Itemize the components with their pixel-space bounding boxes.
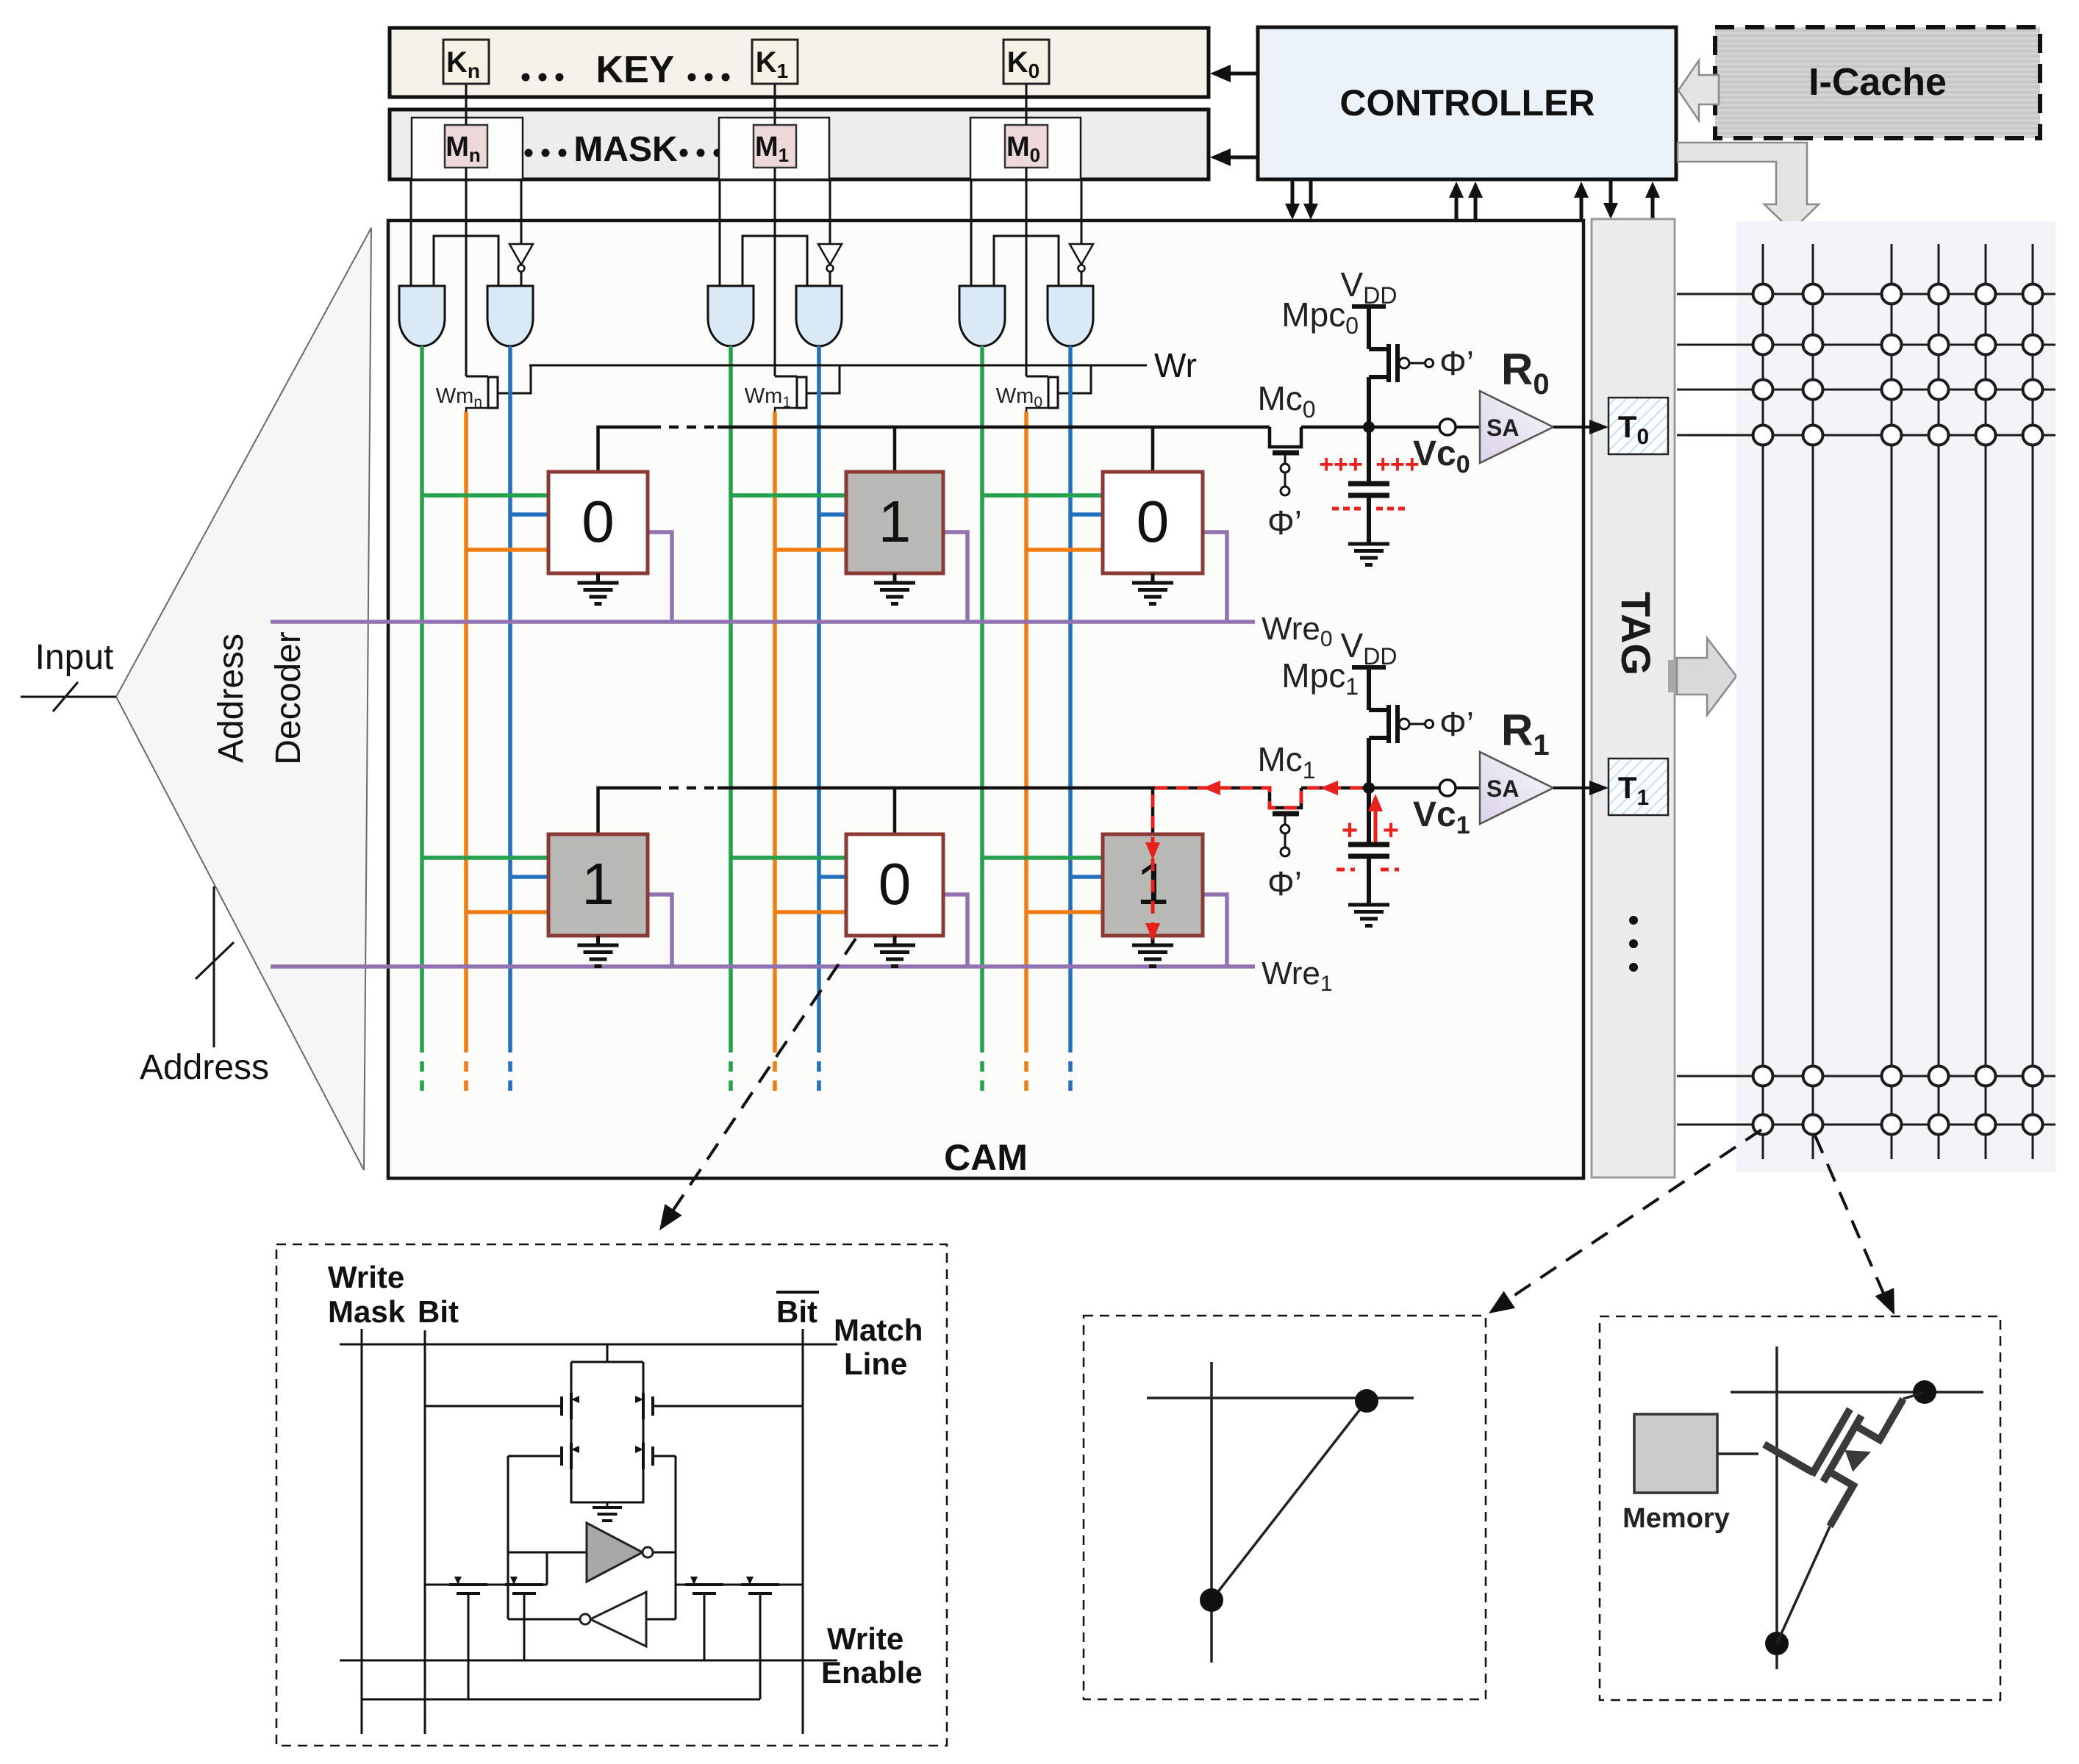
wire key K1 vertical [774, 84, 776, 125]
mask sub-cell box Mn [412, 118, 523, 179]
svg-text:SA: SA [1486, 775, 1519, 802]
key bit Kn [443, 40, 489, 84]
transistor Mpc0 precharge PMOS [1367, 306, 1371, 349]
lower gates wires [508, 1455, 562, 1458]
arrow SA to T0 [1553, 426, 1594, 429]
wire purple stub r0c2 [1203, 532, 1227, 622]
svg-text:Address: Address [212, 634, 251, 763]
wire blue stub r1c0 [510, 875, 548, 879]
gate wire to Bit-bar [653, 1405, 803, 1408]
arrow controller to KEY [1229, 72, 1258, 76]
thin leads of rotated transistor [1903, 1393, 1923, 1399]
node dot bottom [1765, 1632, 1789, 1655]
svg-text:CAM: CAM [944, 1137, 1028, 1178]
capacitor C1 [1367, 788, 1371, 845]
pass wire bottom right (detail) [676, 1584, 803, 1586]
memory array row line 2 [1677, 389, 2055, 391]
svg-text:Memory: Memory [1622, 1503, 1730, 1534]
svg-text:+: + [1383, 815, 1399, 846]
memory gate lead [1717, 1452, 1758, 1455]
svg-text:0: 0 [1137, 489, 1170, 554]
wire orange stub r1c1 [775, 910, 846, 914]
arrow controller down into TAG [1609, 180, 1613, 210]
svg-text:+: + [1342, 815, 1358, 846]
write mask vertical (detail) [361, 1329, 363, 1734]
sense amplifier SA row 1 [1456, 786, 1480, 789]
inverter (storage) [646, 1618, 676, 1621]
wire purple stub r1c2 [1203, 894, 1227, 967]
wire orange stub r0c1 [775, 548, 846, 552]
match FET lower-right [643, 1419, 645, 1443]
svg-text:SA: SA [1486, 415, 1519, 441]
crossbar vertical line [1210, 1362, 1213, 1663]
wire green stub r1c0 [422, 856, 548, 860]
arrow CAM up into controller at x=1981 [1455, 192, 1459, 220]
dots in TAG strip [1629, 916, 1638, 925]
wire blue stub r1c2 [1070, 875, 1103, 879]
svg-text:Φ’: Φ’ [1267, 503, 1302, 542]
wire match line right segment row 1 [1301, 786, 1439, 790]
CAM cell r1c0 value 1 [548, 834, 648, 936]
I-Cache block [1715, 27, 2040, 138]
memory array row line 3 [1677, 434, 2055, 437]
gate wire to Bit [425, 1405, 562, 1408]
buffer (storage) [508, 1552, 587, 1554]
dashed callout arrow array to middle box [1505, 1130, 1761, 1302]
wire key Kn vertical [465, 84, 468, 125]
wire cell top stub r1c2 [1151, 788, 1155, 834]
mask line orange 1 [773, 412, 777, 1042]
pass FET 1 [449, 1583, 487, 1586]
arrow controller to MASK [1229, 156, 1258, 159]
wire green stub r1c2 [982, 856, 1103, 860]
node junction Vc0 [1363, 421, 1375, 433]
wire key K0 vertical [1026, 84, 1028, 125]
CAM cell detail dashed box [276, 1244, 947, 1746]
pass wire bottom left (detail) [425, 1584, 547, 1586]
match line (detail) [340, 1344, 837, 1346]
memory element square [1634, 1414, 1717, 1493]
svg-text:1: 1 [879, 489, 912, 554]
match line ML1 [598, 788, 652, 834]
tag bit box T1 [1609, 759, 1668, 815]
transistor Mc0 on match line [1270, 427, 1301, 447]
crossbar node dot B [1200, 1588, 1223, 1612]
ground below cell r0c0 [596, 573, 600, 582]
svg-text:Write: Write [827, 1621, 903, 1656]
block arrow I-Cache to controller [1678, 60, 1719, 121]
wire blue stub r0c1 [819, 512, 846, 517]
svg-text:Input: Input [35, 638, 114, 677]
wire cell top stub r1c1 [893, 788, 897, 834]
wire mask right Mn [520, 179, 523, 244]
Wre1 purple write-enable row line [271, 964, 1255, 969]
controller block [1258, 27, 1676, 179]
mask sub-cell box M0 [970, 118, 1081, 179]
crossbar detail dashed box [1084, 1316, 1486, 1699]
wire green stub r0c0 [422, 493, 548, 498]
ground below cell r1c2 [1151, 936, 1155, 944]
VDD rail row 0 [1352, 304, 1386, 309]
pass FET 2 [505, 1583, 543, 1586]
red discharge path on ML1 [1153, 788, 1362, 928]
key bit K1 [752, 40, 798, 84]
AND gate Bn [487, 286, 533, 346]
memory array row line 0 [1677, 293, 2055, 295]
svg-text:Wr: Wr [1154, 346, 1197, 384]
memory array column line 2 [1891, 244, 1893, 1159]
stack bottom join [571, 1469, 643, 1502]
CAM cell r0c2 value 0 [1103, 472, 1203, 573]
inverter on mask line n [509, 244, 533, 265]
arrow TAG up into controller [1580, 192, 1584, 219]
address decoder triangle [116, 228, 371, 1170]
svg-text:CONTROLLER: CONTROLLER [1339, 82, 1595, 123]
CAM cell r1c1 value 0 [846, 834, 943, 936]
wire cell top stub r0c2 [1151, 427, 1155, 472]
Wr write line [529, 365, 1147, 367]
match FET lower-left [570, 1419, 573, 1443]
svg-text:+++: +++ [1319, 451, 1363, 478]
ground of stack [606, 1502, 609, 1507]
memory transistor detail dashed box [1600, 1316, 2000, 1700]
pass transistor Wmn [466, 376, 488, 378]
svg-text:Mask: Mask [328, 1294, 406, 1329]
CAM array box [388, 220, 1584, 1178]
ground below capacitor C1 [1348, 903, 1389, 907]
pass FET 4 [741, 1583, 779, 1586]
bit vertical (detail) [424, 1330, 426, 1734]
mask line orange n [464, 412, 468, 1042]
word line horizontal (right box) [1731, 1391, 1983, 1394]
svg-text:Address: Address [140, 1048, 269, 1087]
memory array row line 5 [1677, 1124, 2055, 1126]
svg-text:MASK: MASK [573, 130, 678, 169]
memory array row line 1 [1677, 344, 2055, 346]
transistor Mpc1 precharge PMOS [1367, 667, 1371, 710]
wire purple stub r1c0 [648, 894, 672, 967]
svg-text:Match: Match [834, 1313, 923, 1347]
wire mask right M0 [1081, 179, 1083, 244]
ground below capacitor C0 [1348, 542, 1389, 546]
MASK register box [390, 110, 1209, 179]
wire purple stub r0c0 [648, 532, 672, 622]
red arrow up from capacitor C1 [1374, 801, 1378, 842]
memory array column line 4 [1985, 244, 1987, 1159]
CAM cell r0c0 value 0 [548, 472, 648, 573]
wire mask right M1 [829, 179, 831, 244]
CAM cell r0c1 value 1 [846, 472, 943, 573]
node junction Vc1 [1363, 782, 1375, 794]
wire orange stub r0c2 [1026, 548, 1103, 552]
arrow controller down into CAM at x=1783 [1309, 180, 1313, 210]
crossbar diagonal link [1212, 1401, 1367, 1600]
memory array column line 0 [1762, 244, 1764, 1159]
arrow SA to T1 [1553, 786, 1594, 789]
AND gate B0 [1048, 286, 1093, 346]
wire mask left Mn [410, 179, 412, 286]
svg-text:Bit: Bit [776, 1294, 817, 1329]
ground below cell r0c2 [1151, 573, 1155, 582]
tag bit box T0 [1609, 398, 1668, 454]
svg-text:I-Cache: I-Cache [1808, 61, 1947, 104]
latch node risers [507, 1456, 509, 1619]
wire blue stub r0c0 [510, 512, 548, 517]
inverter on mask line 1 [818, 244, 842, 265]
arrow controller down into CAM at x=1758 [1291, 180, 1295, 210]
pass transistor Wm0 [1026, 376, 1048, 378]
pass transistor Wm1 [775, 376, 797, 378]
write enable line (detail) [340, 1660, 837, 1662]
memory array row line 4 [1677, 1075, 2055, 1078]
bit line blue 1 [817, 346, 821, 1042]
ground below cell r1c0 [596, 936, 600, 944]
capacitor C0 [1367, 427, 1371, 484]
pass FET 3 [685, 1583, 723, 1586]
Address label and bus [213, 886, 215, 1047]
write mask gate bus (detail) [362, 1699, 760, 1701]
match FET upper-right [643, 1362, 645, 1393]
svg-text:TAG: TAG [1613, 592, 1659, 675]
bit line green 0 [980, 346, 984, 1042]
svg-text:1: 1 [582, 851, 615, 917]
AND gate B1 [796, 286, 842, 346]
wire key jog to AND gates 0 [994, 236, 1059, 286]
svg-text:0: 0 [879, 851, 912, 917]
wire key jog to AND gates n [434, 236, 498, 286]
mask sub-cell box M1 [719, 118, 829, 179]
wire key jog to AND gates 1 [742, 236, 807, 286]
node circle before SA row 1 [1439, 780, 1456, 796]
wire mask left M0 [970, 179, 973, 286]
elbow block arrow controller to memory array [1678, 143, 1819, 231]
match FET upper-left [570, 1362, 573, 1393]
wire mask left M1 [719, 179, 721, 286]
block arrow TAG to memory [1668, 660, 1677, 692]
wire orange stub r1c0 [466, 910, 548, 914]
svg-text:Decoder: Decoder [269, 631, 308, 764]
AND gate A1 [708, 286, 754, 346]
memory array background [1736, 221, 2055, 1172]
svg-text:Bit: Bit [418, 1294, 459, 1329]
wire orange stub r0c0 [466, 548, 548, 552]
svg-text:KEY: KEY [596, 49, 675, 91]
memory array column line 5 [2032, 244, 2034, 1159]
bit line vertical (right box) [1775, 1347, 1778, 1669]
ground below cell r0c1 [893, 573, 897, 582]
memory array column line 3 [1938, 244, 1940, 1159]
wire green stub r0c2 [982, 493, 1103, 498]
node circle before SA row 0 [1439, 419, 1456, 435]
wire blue stub r0c2 [1070, 512, 1103, 517]
bit line blue 0 [1068, 346, 1073, 1042]
crossbar node dot A [1355, 1389, 1378, 1413]
VDD rail row 1 [1352, 665, 1386, 670]
arrow TAG up into controller 2 [1651, 192, 1655, 219]
wire cell top stub r0c1 [893, 427, 897, 472]
CAM cell r1c2 value 1 [1103, 834, 1203, 936]
inverter on mask line 0 [1070, 244, 1093, 265]
dashed callout arrow cell to detail [670, 939, 856, 1214]
KEY register box [390, 28, 1209, 97]
match line ML0 [598, 427, 652, 472]
svg-text:Line: Line [844, 1347, 907, 1381]
Wre0 purple write-enable row line [271, 620, 1255, 624]
wire green stub r0c1 [731, 493, 846, 498]
AND gate A0 [959, 286, 1005, 346]
wire orange stub r1c2 [1026, 910, 1103, 914]
bit line blue n [508, 346, 512, 1042]
sense amplifier SA row 0 [1456, 426, 1480, 429]
pass FET gate drops [468, 1593, 470, 1699]
svg-text:0: 0 [582, 489, 615, 554]
svg-text:Φ’: Φ’ [1267, 864, 1302, 903]
TAG strip [1592, 219, 1675, 1177]
AND gate An [399, 286, 445, 346]
node dot top [1913, 1380, 1936, 1404]
floating-gate transistor rotated [1745, 1350, 1903, 1527]
memory array column line 1 [1812, 244, 1814, 1159]
transistor Mc1 on match line [1270, 788, 1301, 808]
dashed callout arrow array to right box [1815, 1136, 1887, 1302]
wire blue stub r1c1 [819, 875, 846, 879]
svg-text:Φ’: Φ’ [1439, 344, 1474, 382]
mask line orange 0 [1024, 412, 1028, 1042]
ground below cell r1c1 [893, 936, 897, 944]
wire purple stub r1c1 [943, 894, 967, 967]
wire match line right segment row 0 [1301, 426, 1439, 429]
wire green stub r1c1 [731, 856, 846, 860]
key bit K0 [1003, 40, 1049, 84]
crossbar horizontal line [1147, 1396, 1414, 1399]
wire purple stub r0c1 [943, 532, 967, 622]
match transistor stack [606, 1344, 609, 1362]
arrow CAM up into controller at x=2007 [1474, 192, 1478, 220]
bit line green n [420, 346, 424, 1042]
svg-text:Φ’: Φ’ [1439, 705, 1474, 743]
bit-bar vertical (detail) [802, 1329, 804, 1734]
bit line green 1 [729, 346, 733, 1042]
svg-text:Write: Write [328, 1260, 404, 1294]
